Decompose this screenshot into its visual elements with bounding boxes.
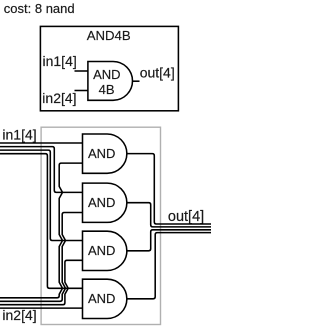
svg-text:AND: AND <box>88 291 115 306</box>
svg-text:in1[4]: in1[4] <box>43 53 77 69</box>
svg-text:out[4]: out[4] <box>168 209 204 225</box>
svg-text:out[4]: out[4] <box>140 65 175 81</box>
svg-text:in2[4]: in2[4] <box>2 307 36 323</box>
svg-text:AND: AND <box>88 146 115 161</box>
svg-text:in2[4]: in2[4] <box>42 90 76 106</box>
svg-text:AND: AND <box>93 67 120 82</box>
svg-text:in1[4]: in1[4] <box>2 126 36 142</box>
svg-text:AND4B: AND4B <box>87 28 131 43</box>
svg-text:AND: AND <box>88 195 115 210</box>
svg-text:cost: 8 nand: cost: 8 nand <box>4 1 75 16</box>
svg-text:AND: AND <box>88 243 115 258</box>
svg-text:4B: 4B <box>99 82 115 97</box>
